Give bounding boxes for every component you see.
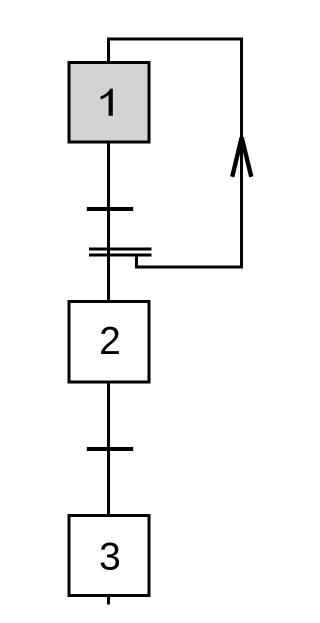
- svg-text:3: 3: [99, 535, 121, 578]
- svg-text:2: 2: [99, 320, 121, 363]
